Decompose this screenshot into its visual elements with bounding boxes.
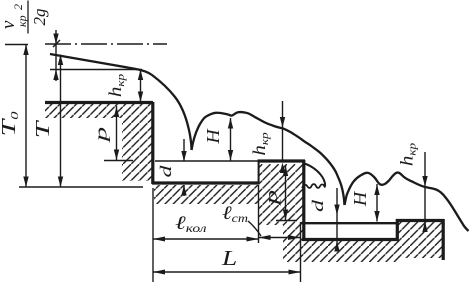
svg-text:ℓкол: ℓкол bbox=[175, 212, 207, 234]
svg-text:2g: 2g bbox=[30, 9, 49, 26]
svg-text:hкр: hкр bbox=[251, 132, 271, 155]
svg-text:d: d bbox=[310, 199, 327, 212]
svg-text:ℓст: ℓст bbox=[222, 202, 248, 225]
svg-text:p: p bbox=[263, 190, 282, 207]
svg-text:p: p bbox=[92, 127, 111, 144]
svg-text:L: L bbox=[221, 247, 237, 270]
svg-text:2: 2 bbox=[11, 4, 25, 10]
svg-text:H: H bbox=[351, 190, 371, 207]
svg-text:T: T bbox=[31, 120, 54, 139]
svg-text:H: H bbox=[204, 128, 224, 145]
svg-text:кр: кр bbox=[15, 15, 29, 27]
svg-text:hкр: hкр bbox=[107, 74, 127, 97]
svg-text:hкр: hкр bbox=[398, 143, 418, 166]
svg-text:T0: T0 bbox=[0, 112, 21, 137]
svg-text:d: d bbox=[158, 165, 175, 178]
